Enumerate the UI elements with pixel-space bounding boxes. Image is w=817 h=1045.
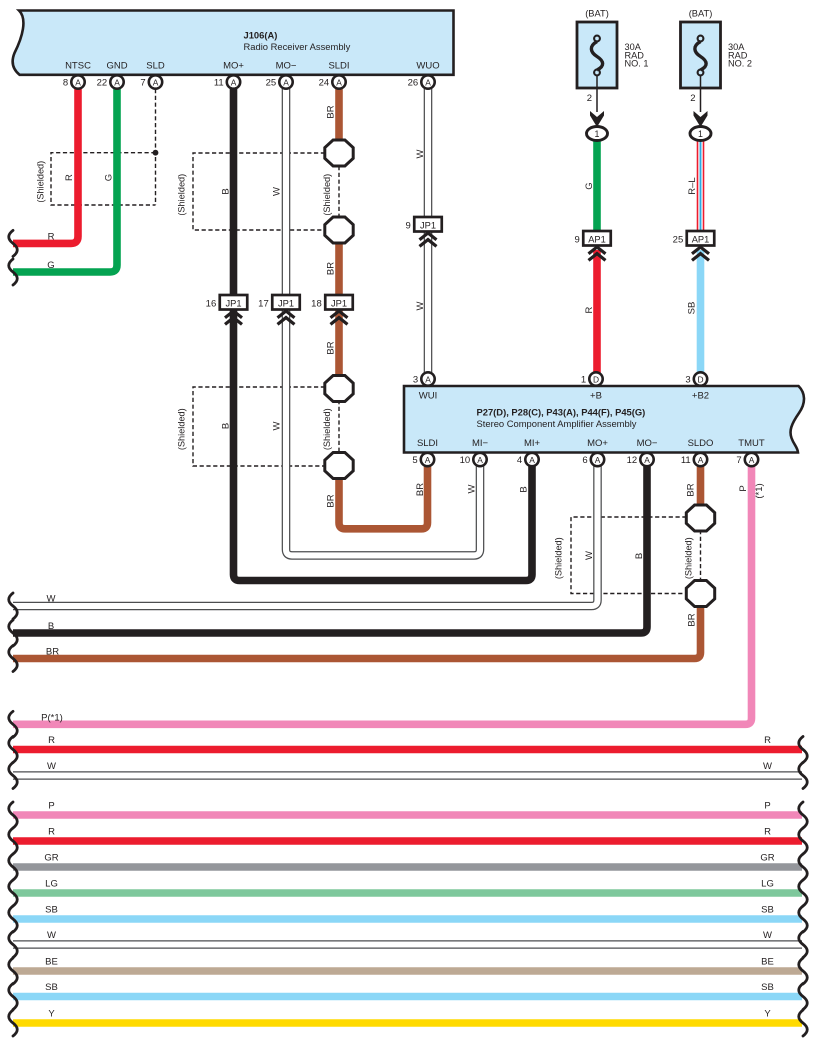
svg-text:A: A xyxy=(425,374,431,384)
svg-text:A: A xyxy=(595,455,601,465)
wire W horizontal full-width 2 xyxy=(9,930,808,957)
svg-text:SLDI: SLDI xyxy=(328,61,349,72)
svg-text:R: R xyxy=(64,174,75,181)
svg-text:4: 4 xyxy=(517,455,522,466)
svg-text:MO+: MO+ xyxy=(223,61,244,72)
tear left end of W wire xyxy=(9,593,18,619)
svg-text:MI+: MI+ xyxy=(524,438,541,449)
svg-text:WUI: WUI xyxy=(419,391,437,402)
svg-text:(BAT): (BAT) xyxy=(585,9,609,19)
svg-text:NO. 2: NO. 2 xyxy=(728,59,752,69)
amp pin 10 A (MI-) xyxy=(460,453,487,466)
svg-text:26: 26 xyxy=(408,77,419,88)
svg-text:A: A xyxy=(698,455,704,465)
svg-text:W: W xyxy=(415,301,426,310)
svg-text:R: R xyxy=(48,735,55,746)
svg-text:6: 6 xyxy=(582,455,587,466)
svg-text:10: 10 xyxy=(460,455,471,466)
J106 pin 11 A (MO+) xyxy=(214,75,240,88)
shield dashed link between octagons on SLDI lower xyxy=(338,400,340,453)
wire SB horizontal full-width xyxy=(9,905,808,932)
svg-text:BE: BE xyxy=(45,957,58,968)
svg-text:(BAT): (BAT) xyxy=(689,9,713,19)
wire R-L from fuse RAD NO.2 connector 1 to AP1 25 xyxy=(697,139,705,232)
svg-text:1: 1 xyxy=(698,129,703,139)
junction connector 25 AP1 on R-L/SB wire xyxy=(673,231,715,260)
svg-text:SB: SB xyxy=(687,302,698,315)
shield octagon on SLDI wire 4 xyxy=(325,453,353,479)
svg-text:B: B xyxy=(519,486,530,492)
amp pin 5 A (SLDI) xyxy=(412,453,434,466)
wire R horizontal full-width xyxy=(9,735,808,762)
svg-text:B: B xyxy=(634,553,645,559)
J106 pin 25 A (MO-) xyxy=(266,75,293,88)
svg-text:W: W xyxy=(47,930,56,941)
svg-text:7: 7 xyxy=(140,77,145,88)
shield box (B,W wires) lower, dashed xyxy=(193,387,325,466)
amp pin 1 D (+B) xyxy=(581,372,603,385)
connector box P27(D)...P45(G) Stereo Component Amplifier Assembly xyxy=(404,386,804,453)
svg-text:R: R xyxy=(764,735,771,746)
svg-text:TMUT: TMUT xyxy=(738,438,765,449)
svg-text:MO+: MO+ xyxy=(587,438,608,449)
svg-text:B: B xyxy=(221,188,232,194)
shield box (R,G wires) with SLD drain, dashed xyxy=(51,89,156,205)
svg-text:W: W xyxy=(272,187,283,196)
svg-text:(Shielded): (Shielded) xyxy=(177,408,187,450)
svg-text:MI−: MI− xyxy=(472,438,489,449)
svg-text:1: 1 xyxy=(595,129,600,139)
tear left end of P wire xyxy=(9,711,18,737)
svg-text:+B: +B xyxy=(590,391,602,402)
svg-text:W: W xyxy=(47,594,56,605)
svg-text:A: A xyxy=(749,455,755,465)
svg-text:P: P xyxy=(764,801,770,812)
wire G from fuse RAD NO.1 connector 1 to AP1 9 xyxy=(593,139,601,232)
svg-text:BR: BR xyxy=(326,341,337,354)
svg-text:AP1: AP1 xyxy=(588,234,606,244)
svg-text:SB: SB xyxy=(761,982,774,993)
svg-text:NO. 1: NO. 1 xyxy=(625,59,649,69)
svg-text:A: A xyxy=(425,77,431,87)
svg-text:LG: LG xyxy=(761,879,774,890)
shield dashed link between octagons on SLDI upper xyxy=(338,166,340,217)
wire P from amplifier TMUT pin 7 to left break xyxy=(13,466,752,724)
svg-text:BR: BR xyxy=(686,483,697,496)
svg-text:P: P xyxy=(738,485,749,491)
svg-text:JP1: JP1 xyxy=(225,298,241,308)
svg-text:5: 5 xyxy=(412,455,417,466)
shield dashed link between octagons on SLDO xyxy=(700,530,702,581)
wire B from amplifier MO- pin 12 to left break xyxy=(13,466,647,633)
svg-text:BR: BR xyxy=(326,262,337,275)
svg-text:3: 3 xyxy=(413,374,418,385)
wire BR between octagons through JP1 18 xyxy=(335,241,343,376)
wire BR from octagon to amplifier SLDI pin 5 xyxy=(339,466,428,529)
tear left end of G wire xyxy=(9,259,18,285)
svg-text:16: 16 xyxy=(206,299,217,310)
svg-text:SLDI: SLDI xyxy=(417,438,438,449)
connector box J106(A) Radio Receiver Assembly xyxy=(13,11,454,75)
svg-text:SLD: SLD xyxy=(146,61,165,72)
svg-text:(*1): (*1) xyxy=(754,483,765,498)
svg-text:25: 25 xyxy=(266,77,277,88)
tear left end of B wire xyxy=(9,620,18,646)
svg-text:(Shielded): (Shielded) xyxy=(322,408,332,450)
shield octagon on SLDO wire 6 xyxy=(686,581,714,607)
svg-text:Radio Receiver Assembly: Radio Receiver Assembly xyxy=(244,41,351,52)
svg-text:JP1: JP1 xyxy=(420,220,436,230)
svg-text:Stereo Component Amplifier Ass: Stereo Component Amplifier Assembly xyxy=(477,418,637,429)
svg-text:2: 2 xyxy=(690,93,695,104)
J106 pin 8 A (NTSC) xyxy=(63,75,85,88)
svg-text:A: A xyxy=(336,77,342,87)
svg-text:3: 3 xyxy=(685,374,690,385)
shield octagon on SLDO wire 5 xyxy=(686,505,714,531)
shield octagon on SLDI wire 1 xyxy=(325,140,353,166)
J106 pin 26 A (WUO) xyxy=(408,75,435,88)
svg-text:24: 24 xyxy=(319,77,330,88)
svg-text:+B2: +B2 xyxy=(692,391,709,402)
svg-text:(Shielded): (Shielded) xyxy=(36,161,46,203)
amp pin 3 D (+B2) xyxy=(685,372,707,385)
svg-text:W: W xyxy=(467,484,478,493)
amp pin 6 A (MO+) xyxy=(582,453,604,466)
svg-text:R: R xyxy=(584,306,595,313)
svg-text:A: A xyxy=(153,77,159,87)
J106 pin 22 A (GND) xyxy=(97,75,124,88)
wire Y horizontal full-width xyxy=(9,1009,808,1036)
svg-text:A: A xyxy=(644,455,650,465)
svg-text:(Shielded): (Shielded) xyxy=(322,174,332,216)
svg-text:W: W xyxy=(763,930,772,941)
svg-text:W: W xyxy=(47,761,56,772)
svg-text:R–L: R–L xyxy=(687,177,698,194)
svg-text:(Shielded): (Shielded) xyxy=(177,174,187,216)
svg-text:BR: BR xyxy=(46,647,59,658)
wire W horizontal full-width xyxy=(9,761,808,788)
wire W from amplifier MO+ pin 6 to left break xyxy=(13,466,598,606)
svg-text:25: 25 xyxy=(673,235,684,246)
svg-text:8: 8 xyxy=(63,77,68,88)
svg-text:W: W xyxy=(272,421,283,430)
wire W from J106 WUO pin 26 through JP1 9 to amplifier WUI pin 3 xyxy=(424,88,433,373)
svg-text:A: A xyxy=(425,455,431,465)
svg-text:2: 2 xyxy=(587,93,592,104)
amp pin 7 A (TMUT) xyxy=(736,453,758,466)
svg-text:BR: BR xyxy=(687,613,698,626)
wire BR from J106 SLDI pin 24 to shield octagon xyxy=(335,88,343,142)
svg-text:R: R xyxy=(48,231,55,242)
svg-text:GR: GR xyxy=(44,853,58,864)
svg-text:W: W xyxy=(763,761,772,772)
tear left end of R wire xyxy=(9,230,18,256)
svg-text:BR: BR xyxy=(415,483,426,496)
svg-text:9: 9 xyxy=(405,221,410,232)
amp pin 12 A (MO-) xyxy=(627,453,654,466)
wire W from J106 MO- pin 25 through JP1 17 to amplifier MI- pin 10 xyxy=(286,88,480,555)
svg-text:LG: LG xyxy=(45,879,58,890)
svg-text:11: 11 xyxy=(214,77,224,88)
amp pin 3 A (WUI) xyxy=(413,372,435,385)
wire BR from amplifier SLDO pin 11 to shield octagon xyxy=(697,466,705,506)
svg-text:W: W xyxy=(584,551,595,560)
junction connector 16 JP1 on B wire xyxy=(206,295,248,324)
svg-text:A: A xyxy=(231,77,237,87)
J106 pin 7 A (SLD) xyxy=(140,75,162,88)
wire LG horizontal full-width xyxy=(9,879,808,906)
svg-text:SB: SB xyxy=(45,905,58,916)
svg-text:P(*1): P(*1) xyxy=(41,712,63,723)
junction connector 18 JP1 on BR wire xyxy=(311,295,353,324)
svg-text:12: 12 xyxy=(627,455,638,466)
svg-text:11: 11 xyxy=(681,455,691,466)
svg-text:G: G xyxy=(47,260,54,271)
wire BE horizontal full-width xyxy=(9,957,808,984)
shield octagon on SLDI wire 2 xyxy=(325,217,353,243)
svg-text:BR: BR xyxy=(326,494,337,507)
svg-text:P: P xyxy=(48,801,54,812)
svg-text:D: D xyxy=(593,374,599,384)
svg-text:(Shielded): (Shielded) xyxy=(554,537,564,579)
svg-text:A: A xyxy=(75,77,81,87)
amp pin 11 A (SLDO) xyxy=(681,453,707,466)
svg-text:P27(D), P28(C), P43(A), P44(F): P27(D), P28(C), P43(A), P44(F), P45(G) xyxy=(477,407,646,418)
junction connector 9 AP1 on G/R wire xyxy=(574,231,610,260)
amp pin 4 A (MI+) xyxy=(517,453,539,466)
svg-text:R: R xyxy=(48,827,55,838)
svg-text:22: 22 xyxy=(97,77,108,88)
svg-text:AP1: AP1 xyxy=(692,234,710,244)
junction connector 17 JP1 on W wire xyxy=(258,295,300,324)
svg-text:G: G xyxy=(104,174,115,181)
svg-text:MO−: MO− xyxy=(637,438,658,449)
svg-text:A: A xyxy=(114,77,120,87)
svg-text:SLDO: SLDO xyxy=(688,438,714,449)
J106 pin 24 A (SLDI) xyxy=(319,75,346,88)
wire SB horizontal full-width 2 xyxy=(9,982,808,1009)
shield octagon on SLDI wire 3 xyxy=(325,376,353,402)
wire SB from AP1 25 to amplifier +B2 pin 3 xyxy=(697,250,705,374)
svg-text:B: B xyxy=(48,621,54,632)
svg-text:NTSC: NTSC xyxy=(65,61,91,72)
tear left end of BR wire xyxy=(9,646,18,672)
svg-text:J106(A): J106(A) xyxy=(244,30,278,41)
shield box (B,W wires) upper, dashed xyxy=(193,153,325,230)
svg-text:WUO: WUO xyxy=(416,61,439,72)
svg-text:7: 7 xyxy=(736,455,741,466)
svg-text:(Shielded): (Shielded) xyxy=(684,537,694,579)
svg-text:9: 9 xyxy=(574,235,579,246)
svg-text:D: D xyxy=(697,374,703,384)
fuse 30A RAD NO. 2 with (BAT) feed, pin 2, connector 1 xyxy=(681,9,753,141)
svg-text:A: A xyxy=(283,77,289,87)
svg-text:JP1: JP1 xyxy=(331,298,347,308)
svg-text:BE: BE xyxy=(761,957,774,968)
svg-text:SB: SB xyxy=(761,905,774,916)
svg-text:17: 17 xyxy=(258,299,269,310)
svg-text:Y: Y xyxy=(764,1009,771,1020)
svg-text:W: W xyxy=(415,149,426,158)
wire BR from octagon to left break xyxy=(13,605,701,659)
svg-text:GND: GND xyxy=(106,61,127,72)
wire GR horizontal full-width xyxy=(9,853,808,880)
shield box (W,B wires) right, dashed xyxy=(571,517,687,594)
svg-text:MO−: MO− xyxy=(276,61,297,72)
svg-text:Y: Y xyxy=(48,1009,55,1020)
svg-text:A: A xyxy=(477,455,483,465)
svg-text:SB: SB xyxy=(45,982,58,993)
wire R from J106 NTSC pin 8 to left break xyxy=(13,88,78,243)
svg-text:G: G xyxy=(584,182,595,189)
wire R horizontal full-width 2 xyxy=(9,827,808,854)
junction connector 9 JP1 on W wire xyxy=(405,217,441,246)
wire P horizontal full-width xyxy=(9,801,808,828)
svg-text:BR: BR xyxy=(326,105,337,118)
svg-text:1: 1 xyxy=(581,374,586,385)
wire B from J106 MO+ pin 11 through JP1 16 to amplifier MI+ pin 4 xyxy=(234,88,533,581)
svg-text:A: A xyxy=(529,455,535,465)
svg-text:GR: GR xyxy=(760,853,774,864)
svg-text:B: B xyxy=(221,423,232,429)
fuse 30A RAD NO. 1 with (BAT) feed, pin 2, connector 1 xyxy=(577,9,649,141)
svg-text:R: R xyxy=(764,827,771,838)
wire G from J106 GND pin 22 to left break xyxy=(13,88,117,272)
svg-text:18: 18 xyxy=(311,299,322,310)
svg-text:JP1: JP1 xyxy=(278,298,294,308)
wire R from AP1 9 to amplifier +B pin 1 xyxy=(593,250,601,374)
junction dot on SLD drain line xyxy=(153,150,159,156)
